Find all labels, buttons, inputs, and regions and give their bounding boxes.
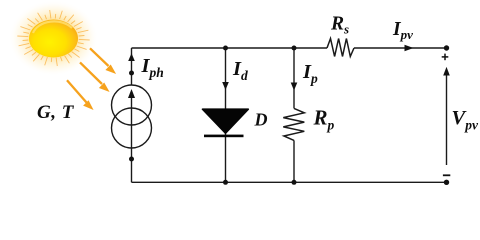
- Vpv arrowhead: [443, 67, 450, 76]
- minus terminal: [443, 174, 450, 176]
- irradiance arrow 2: [80, 62, 109, 91]
- svg-text:G, T: G, T: [37, 102, 75, 123]
- plus terminal: [442, 54, 449, 61]
- Ip arrow: [291, 83, 298, 91]
- node dot Rp top: [292, 46, 297, 51]
- wire diode branch: [225, 48, 227, 182]
- wire left vertical lower: [131, 98, 133, 183]
- wire top left segment: [132, 47, 328, 49]
- irradiance arrow 3: [67, 80, 93, 109]
- node dot left upper: [129, 71, 134, 76]
- node dot diode top: [223, 46, 228, 51]
- svg-text:D: D: [254, 110, 268, 130]
- irradiance arrow 1: [90, 48, 115, 73]
- wire left vertical upper: [131, 48, 133, 85]
- sun body: [29, 20, 78, 58]
- svg-text:Vpv: Vpv: [452, 107, 479, 133]
- wire top right segment: [354, 47, 447, 49]
- wire bottom: [132, 181, 447, 183]
- sun rays: [17, 10, 89, 66]
- Vpv arrow line: [446, 75, 448, 166]
- node dot diode bottom: [223, 180, 228, 185]
- resistor Rp zigzag: [283, 108, 304, 140]
- node dot Rp bottom: [292, 180, 297, 185]
- svg-text:Rp: Rp: [313, 106, 335, 133]
- node dot top right: [444, 45, 449, 50]
- Iph arrow: [128, 53, 135, 61]
- node dot left lower: [129, 157, 134, 162]
- current source U1 circles: [112, 85, 152, 148]
- svg-text:Iph: Iph: [141, 55, 164, 80]
- svg-text:Rs: Rs: [330, 14, 349, 37]
- current source arrow: [128, 89, 135, 98]
- resistor Rs zigzag: [327, 39, 354, 57]
- diode D cathode bar: [204, 135, 244, 138]
- wire Rp branch upper: [293, 48, 295, 108]
- sun gloss highlight: [33, 21, 72, 33]
- svg-text:Ip: Ip: [302, 61, 318, 86]
- svg-text:Id: Id: [232, 58, 248, 83]
- svg-text:Ipv: Ipv: [392, 19, 413, 42]
- Id arrow: [222, 82, 229, 90]
- wire Rp branch lower: [293, 140, 295, 182]
- sun glow: [9, 0, 99, 76]
- diode D triangle: [203, 109, 249, 133]
- Ipv arrow on top wire: [405, 45, 414, 52]
- node dot bottom right: [444, 180, 449, 185]
